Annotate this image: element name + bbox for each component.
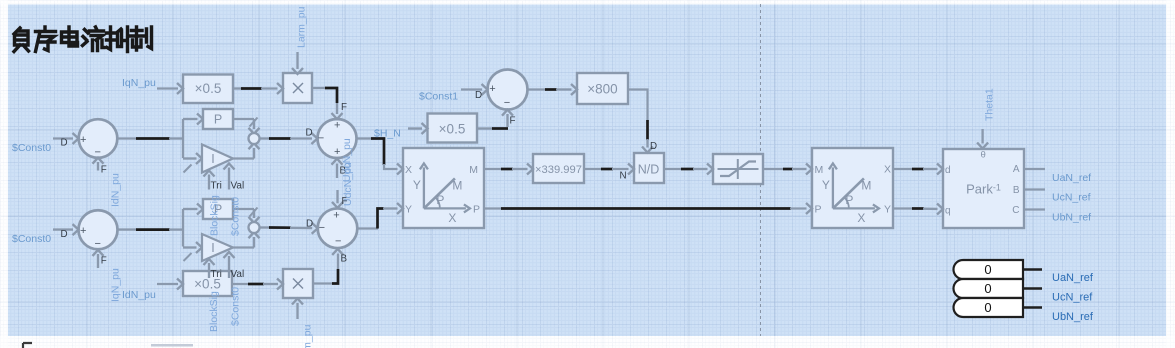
- svg-text:d: d: [945, 165, 951, 176]
- svg-text:M: M: [469, 164, 478, 176]
- svg-text:UbN_ref: UbN_ref: [1052, 211, 1091, 223]
- svg-text:$Const1: $Const1: [419, 91, 458, 103]
- svg-text:UcN_ref: UcN_ref: [1052, 292, 1093, 304]
- svg-text:Theta1: Theta1: [984, 88, 996, 121]
- svg-text:X: X: [857, 211, 865, 225]
- svg-text:Val: Val: [231, 269, 245, 280]
- svg-text:IqN_pu: IqN_pu: [110, 268, 122, 302]
- svg-text:M: M: [861, 178, 871, 192]
- svg-text:C: C: [1012, 205, 1019, 216]
- svg-text:Tri: Tri: [211, 269, 222, 280]
- svg-text:×0.5: ×0.5: [439, 121, 466, 136]
- svg-text:Y: Y: [822, 178, 830, 192]
- svg-text:UaN_ref: UaN_ref: [1052, 172, 1091, 184]
- svg-text:$Const0: $Const0: [12, 233, 51, 245]
- svg-text:I: I: [211, 152, 214, 166]
- svg-text:P: P: [845, 193, 853, 207]
- svg-text:D: D: [475, 90, 482, 101]
- svg-text:−: −: [504, 97, 510, 109]
- svg-text:0: 0: [984, 262, 991, 277]
- svg-text:×0.5: ×0.5: [195, 81, 222, 96]
- svg-text:BlockSig: BlockSig: [209, 195, 221, 236]
- svg-text:P: P: [473, 204, 480, 216]
- svg-text:M: M: [452, 178, 462, 192]
- svg-text:B: B: [341, 254, 348, 265]
- svg-text:F: F: [341, 102, 347, 113]
- svg-text:X: X: [405, 164, 412, 176]
- svg-text:B: B: [1013, 185, 1020, 196]
- svg-text:Y: Y: [413, 178, 421, 192]
- svg-text:X: X: [448, 211, 456, 225]
- svg-text:+: +: [333, 210, 339, 222]
- svg-text:θ: θ: [981, 150, 986, 161]
- svg-text:−: −: [335, 236, 341, 248]
- svg-text:$Const0: $Const0: [230, 287, 242, 326]
- svg-text:−: −: [95, 238, 101, 250]
- svg-text:×339.997: ×339.997: [535, 164, 582, 176]
- svg-text:q: q: [945, 206, 951, 217]
- svg-text:0: 0: [984, 300, 991, 315]
- svg-text:Larm_pu: Larm_pu: [296, 6, 308, 48]
- svg-text:Tri: Tri: [211, 181, 222, 192]
- svg-text:IdN_pu: IdN_pu: [122, 289, 156, 301]
- svg-text:F: F: [510, 116, 516, 127]
- svg-text:I: I: [211, 241, 214, 255]
- svg-text:N: N: [620, 171, 627, 182]
- svg-text:Val: Val: [231, 181, 245, 192]
- svg-text:UaN_ref: UaN_ref: [1052, 272, 1094, 284]
- svg-text:−: −: [319, 222, 325, 234]
- svg-text:P: P: [214, 113, 222, 127]
- svg-text:$H_N: $H_N: [374, 127, 401, 139]
- svg-text:D: D: [306, 219, 313, 230]
- svg-text:+: +: [334, 146, 340, 158]
- svg-text:D: D: [650, 141, 657, 152]
- svg-text:+: +: [80, 134, 86, 146]
- svg-text:+: +: [489, 83, 495, 95]
- svg-text:P: P: [436, 193, 444, 207]
- svg-text:F: F: [101, 164, 107, 175]
- svg-text:X: X: [884, 163, 891, 175]
- svg-text:N/D: N/D: [638, 162, 660, 176]
- svg-text:F: F: [101, 255, 107, 266]
- svg-text:UbN_ref: UbN_ref: [1052, 311, 1094, 323]
- svg-text:Y: Y: [884, 204, 891, 216]
- svg-text:0: 0: [984, 281, 991, 296]
- svg-text:D: D: [61, 229, 68, 240]
- svg-text:Larm_pu: Larm_pu: [302, 324, 314, 348]
- svg-text:A: A: [1013, 164, 1020, 175]
- svg-text:$Const0: $Const0: [230, 197, 242, 236]
- svg-text:×800: ×800: [587, 81, 617, 96]
- svg-text:BlockSig: BlockSig: [208, 291, 220, 332]
- svg-text:IqN_pu: IqN_pu: [122, 77, 156, 89]
- svg-text:$Const0: $Const0: [12, 142, 51, 154]
- svg-text:UdcN_pu: UdcN_pu: [342, 162, 354, 206]
- svg-text:M: M: [815, 164, 824, 176]
- svg-text:Y: Y: [405, 204, 412, 216]
- svg-text:IdN_pu: IdN_pu: [110, 173, 122, 207]
- svg-text:+: +: [334, 119, 340, 131]
- svg-text:UcN_ref: UcN_ref: [1052, 192, 1091, 204]
- svg-text:D: D: [306, 128, 313, 139]
- svg-text:P: P: [815, 204, 822, 216]
- svg-text:D: D: [61, 137, 68, 148]
- svg-text:+: +: [80, 225, 86, 237]
